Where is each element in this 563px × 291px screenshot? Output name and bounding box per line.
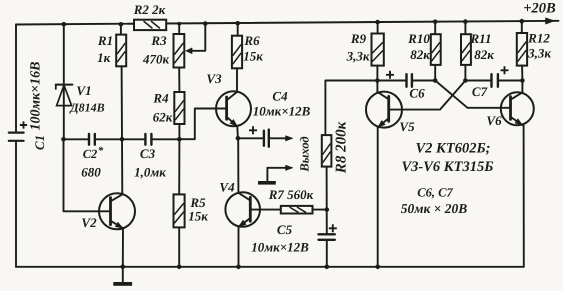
- svg-text:1к: 1к: [97, 50, 111, 65]
- label R11 value: [474, 47, 494, 62]
- resistor R4: [174, 92, 184, 124]
- wire +20V top rail: [16, 21, 559, 25]
- wire cross-coupling to V6 base: [435, 81, 510, 108]
- label C5: [277, 222, 293, 237]
- svg-text:V2: V2: [81, 215, 97, 230]
- svg-text:С4: С4: [272, 89, 288, 104]
- resistor R11: [461, 34, 471, 65]
- label C1 (rotated): [32, 135, 47, 150]
- wire R5 bottom lead: [178, 227, 180, 266]
- svg-text:R6: R6: [243, 33, 260, 48]
- wire R3 top lead: [178, 24, 180, 34]
- node junction C3/R4/R5/V3-base: [177, 137, 182, 142]
- wire C4 left segment: [238, 137, 263, 139]
- label R9 value: [346, 49, 370, 64]
- plus C6: [386, 71, 394, 79]
- svg-text:R8 200к: R8 200к: [334, 121, 350, 174]
- wire V4 emitter lead: [238, 227, 240, 267]
- arrow +20V supply: [546, 18, 555, 24]
- node R10 top rail junction: [433, 20, 438, 25]
- node R3 wiper rail junction: [203, 21, 208, 26]
- ground main: [113, 267, 132, 286]
- svg-text:62к: 62к: [153, 110, 173, 125]
- label output (Выход): [298, 136, 312, 172]
- wire V3 base path: [179, 109, 226, 140]
- svg-text:R12: R12: [527, 31, 550, 46]
- wire cross-coupling to V5 base: [389, 81, 466, 110]
- wire R12 bottom lead: [521, 66, 523, 81]
- label R1 value: [97, 50, 111, 65]
- transistor V5: [366, 92, 402, 128]
- node junction R11/C7 cross: [463, 78, 468, 83]
- label R12 value: [527, 46, 551, 61]
- node junction R7/R8/C5: [325, 207, 330, 212]
- svg-text:V6: V6: [486, 113, 502, 128]
- transistor V6: [501, 92, 534, 125]
- wire R8 top link: [325, 81, 377, 136]
- resistor R1: [116, 35, 126, 67]
- label C3 value: [134, 165, 166, 180]
- wire R9 bottom lead: [376, 66, 378, 81]
- svg-text:R1: R1: [97, 33, 113, 48]
- node R9 top rail junction: [375, 20, 380, 25]
- label R4 value: [153, 110, 173, 125]
- transistor V3: [216, 91, 251, 126]
- arrow output top: [286, 136, 294, 141]
- wire R9 top lead: [377, 22, 379, 33]
- svg-text:С3: С3: [140, 146, 156, 161]
- node R1 top rail junction: [119, 22, 124, 27]
- wire R6 top lead: [237, 23, 239, 35]
- node C5 ground junction: [325, 265, 330, 270]
- arrow R3 wiper: [186, 48, 193, 54]
- label V3: [206, 71, 222, 86]
- wire R8 bottom lead: [326, 167, 328, 234]
- capacitor C7: [492, 74, 498, 87]
- resistor R7: [281, 206, 313, 214]
- capacitor C1: [9, 133, 24, 141]
- label R9: [350, 31, 367, 46]
- label R10 value: [410, 47, 430, 62]
- node R11 top rail junction: [463, 19, 468, 24]
- wire C7 right segment: [498, 80, 522, 82]
- transistor V4: [225, 192, 260, 227]
- wire V2 collector lead: [121, 139, 123, 194]
- plus C4: [249, 126, 257, 134]
- svg-text:82к: 82к: [474, 47, 494, 62]
- wire V1 branch vertical: [63, 24, 65, 139]
- plus C5: [329, 224, 337, 232]
- wire R11 top lead: [464, 22, 466, 35]
- wire R1 top lead: [120, 24, 122, 34]
- wire R7 right lead: [313, 209, 328, 211]
- wire V5 emitter lead: [377, 127, 379, 266]
- capacitor C5: [319, 234, 335, 240]
- wire output lower arrow shaft: [267, 167, 286, 169]
- svg-text:С2: С2: [83, 147, 98, 161]
- capacitor C6: [407, 74, 412, 87]
- node junction R9/R8/C6/V5-collector: [375, 78, 380, 83]
- svg-text:V3-V6 КТ315Б: V3-V6 КТ315Б: [402, 159, 494, 175]
- label V2: [81, 215, 97, 230]
- label R10: [407, 31, 430, 46]
- wire V2 emitter lead: [122, 228, 124, 267]
- svg-text:R2 2к: R2 2к: [133, 2, 166, 17]
- svg-text:С5: С5: [277, 222, 293, 237]
- label C5 value: [251, 240, 309, 255]
- wire R11 bottom lead: [464, 65, 466, 81]
- svg-text:3,3к: 3,3к: [346, 49, 370, 64]
- svg-text:R10: R10: [407, 31, 430, 46]
- wire R10 bottom lead: [434, 65, 436, 81]
- svg-text:100мк×16В: 100мк×16В: [29, 61, 44, 130]
- label C6: [409, 86, 425, 101]
- resistor R12: [517, 33, 527, 66]
- label C2 value: [81, 165, 101, 180]
- resistor R2: [134, 20, 166, 30]
- label parts note line 3: [417, 186, 453, 200]
- svg-text:С7: С7: [472, 84, 488, 99]
- label parts note line 2: [402, 159, 494, 175]
- node junction V1/C2/V2-base: [61, 137, 66, 142]
- svg-text:V4: V4: [219, 180, 235, 195]
- svg-text:Д814В: Д814В: [69, 101, 104, 115]
- transistor V2: [99, 193, 135, 229]
- wire R3-R4 link: [178, 68, 180, 93]
- svg-text:R4: R4: [152, 91, 169, 106]
- node V5 emitter ground junction: [375, 265, 380, 270]
- label R6: [243, 33, 260, 48]
- svg-text:3,3к: 3,3к: [527, 46, 551, 61]
- resistor R6: [232, 36, 242, 69]
- svg-text:82к: 82к: [410, 47, 430, 62]
- label C4 value: [253, 104, 311, 119]
- svg-text:R11: R11: [470, 31, 492, 46]
- label R8 (rotated): [334, 121, 350, 174]
- label R11: [470, 31, 492, 46]
- svg-text:R9: R9: [350, 31, 367, 46]
- node junction R12/C7/V6-collector: [520, 78, 525, 83]
- label V1: [76, 83, 91, 98]
- capacitor C3: [145, 134, 151, 145]
- wire R6 bottom lead / V3 collector: [236, 68, 238, 92]
- node V2 emitter ground junction: [121, 265, 126, 270]
- label R1: [97, 33, 113, 48]
- label R4: [152, 91, 169, 106]
- label R2: [133, 2, 166, 17]
- wire R5 top lead: [178, 139, 180, 194]
- label C1 value (rotated): [29, 61, 44, 130]
- svg-text:470к: 470к: [142, 52, 170, 67]
- wire V2 base L: [64, 139, 111, 211]
- resistor R9: [372, 34, 384, 66]
- node R5 ground junction: [177, 265, 182, 270]
- wire C6 left segment: [377, 80, 406, 82]
- svg-text:R7 560к: R7 560к: [268, 187, 314, 202]
- svg-text:V1: V1: [76, 83, 91, 98]
- wire R1 bottom lead: [121, 66, 123, 139]
- svg-text:10мк×12В: 10мк×12В: [251, 240, 309, 255]
- node junction R10/C6 cross: [433, 78, 438, 83]
- label R3 value: [142, 52, 170, 67]
- label C4: [272, 89, 288, 104]
- label V1 value: [69, 101, 104, 115]
- wire C2 left segment: [64, 138, 89, 140]
- plus C7: [501, 66, 509, 74]
- node R6 top rail junction: [235, 21, 240, 26]
- wire left column upper (C1 top lead): [15, 25, 17, 133]
- svg-text:V3: V3: [206, 71, 222, 86]
- label C3: [140, 146, 156, 161]
- svg-text:15к: 15к: [188, 209, 208, 224]
- svg-text:1,0мк: 1,0мк: [134, 165, 166, 180]
- svg-text:С1: С1: [32, 135, 47, 150]
- wire R12 top lead: [521, 21, 523, 33]
- wire V3 emitter lead: [236, 126, 239, 138]
- wire R4 bottom lead: [178, 124, 180, 139]
- diode V1 (zener): [56, 85, 73, 106]
- ground output: [258, 168, 276, 185]
- arrow output bottom: [286, 165, 294, 170]
- svg-text:*: *: [98, 145, 104, 157]
- svg-text:С6, С7: С6, С7: [417, 186, 453, 200]
- label parts note line 1: [415, 141, 490, 157]
- resistor R10: [431, 34, 441, 65]
- resistor R5: [174, 194, 185, 227]
- label R3: [150, 33, 167, 48]
- svg-text:С6: С6: [409, 86, 425, 101]
- label V5: [399, 119, 415, 134]
- wire C5 bottom lead: [326, 240, 328, 267]
- wire V4 collector lead: [237, 138, 239, 193]
- svg-text:Выход: Выход: [298, 136, 312, 172]
- wire V4 base lead: [250, 209, 280, 211]
- svg-text:V2 КТ602Б;: V2 КТ602Б;: [415, 141, 490, 157]
- node R12 top rail junction: [520, 19, 525, 24]
- label V4: [219, 180, 235, 195]
- wire C6 right segment: [412, 80, 435, 82]
- svg-text:+20В: +20В: [523, 1, 556, 17]
- wire bottom ground rail: [16, 266, 524, 268]
- capacitor C4: [264, 130, 269, 147]
- svg-text:V5: V5: [399, 119, 415, 134]
- svg-text:10мк×12В: 10мк×12В: [253, 104, 311, 119]
- wire R10 top lead: [434, 22, 436, 34]
- label +20V: [523, 1, 556, 17]
- wire left column lower (C1 bottom lead): [15, 141, 17, 267]
- node R3 top rail junction: [177, 22, 181, 26]
- wire V6 emitter lead: [523, 125, 525, 267]
- label R5: [189, 195, 206, 210]
- wire C7 left segment: [465, 80, 491, 82]
- label R5 value: [188, 209, 208, 224]
- resistor R8: [322, 135, 332, 167]
- wire C3 right segment: [152, 138, 180, 140]
- resistor R3 (trimmer): [174, 34, 185, 68]
- wire output top arrow shaft: [269, 137, 286, 139]
- label V6: [486, 113, 502, 128]
- label parts note line 4: [401, 201, 468, 216]
- label R6 value: [243, 49, 263, 64]
- svg-text:15к: 15к: [243, 49, 263, 64]
- svg-text:680: 680: [81, 165, 101, 180]
- capacitor C2: [89, 134, 95, 145]
- svg-text:R3: R3: [150, 33, 167, 48]
- label C7: [472, 84, 488, 99]
- node V1 top rail junction: [62, 22, 67, 27]
- node junction C2/C3/R1/V2-collector: [120, 137, 125, 142]
- label R12: [527, 31, 550, 46]
- svg-text:50мк × 20В: 50мк × 20В: [401, 201, 468, 216]
- wire V5 collector lead: [376, 81, 378, 92]
- wire R3 wiper feed: [192, 24, 205, 51]
- label C2: [83, 145, 104, 161]
- label R7: [268, 187, 314, 202]
- node junction V3-emitter/C4/V4-collector: [236, 136, 241, 141]
- wire C2-C3 middle segment: [95, 138, 145, 140]
- plus C1: [20, 121, 27, 128]
- node V4 emitter ground junction: [236, 265, 241, 270]
- wire V6 collector lead: [521, 81, 523, 93]
